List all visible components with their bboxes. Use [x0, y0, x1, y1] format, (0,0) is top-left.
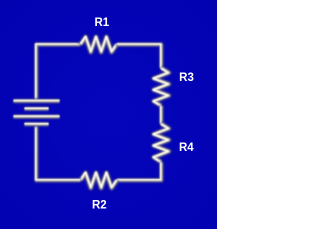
wire: R2 to bottom-left corner up to battery bottom terminal [36, 124, 81, 180]
battery: short plate 1 [25, 106, 49, 112]
battery: long plate 1 (positive) [14, 98, 60, 104]
resistor R1 [81, 37, 117, 53]
svg-text:R4: R4 [179, 142, 194, 154]
resistor R3 [153, 68, 169, 106]
battery: short plate 2 (negative) [25, 121, 49, 127]
wire: R3 to R4 [158, 106, 164, 124]
resistor R2 [81, 172, 117, 188]
wire: R1 to top-right corner down to R3 [117, 44, 162, 68]
svg-text:R2: R2 [92, 199, 107, 211]
wire: R4 to bottom-right corner across to R2 [117, 162, 162, 180]
svg-text:R3: R3 [179, 72, 194, 84]
wire: battery top terminal up to top-left corner and across to R1 [36, 44, 81, 101]
resistor R4 [153, 124, 169, 162]
battery: long plate 2 [14, 114, 60, 120]
svg-text:R1: R1 [94, 17, 109, 29]
